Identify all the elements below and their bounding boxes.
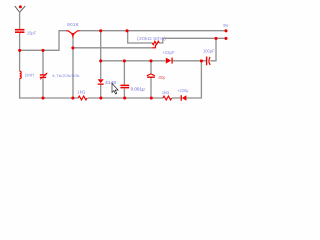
svg-text:9V: 9V [223,23,228,28]
svg-text:1mH: 1mH [25,73,34,78]
svg-text:1kΩ: 1kΩ [162,90,170,95]
svg-text:+22μF: +22μF [163,50,175,55]
svg-text:4.7k/22k/50k: 4.7k/22k/50k [52,73,80,78]
svg-text:1kΩ: 1kΩ [77,89,86,94]
svg-text:0.001μ: 0.001μ [131,86,145,91]
svg-text:400μ: 400μ [158,75,165,80]
svg-text:100μF: 100μF [203,49,215,54]
svg-text:(20kΩ 50%): (20kΩ 50%) [137,36,167,41]
svg-text:+220μ: +220μ [177,88,189,93]
svg-text:9018: 9018 [67,22,79,27]
svg-text:4148: 4148 [105,80,117,85]
svg-text:15pF: 15pF [27,30,36,35]
